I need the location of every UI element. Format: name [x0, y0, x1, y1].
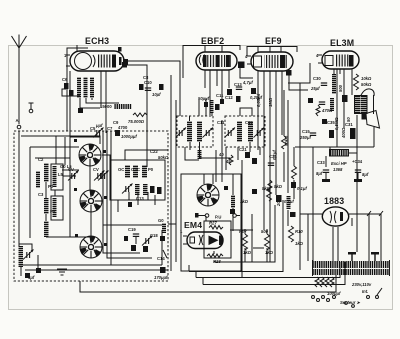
svg-text:50μμf: 50μμf [198, 96, 210, 101]
svg-text:C13: C13 [234, 82, 242, 87]
svg-text:400Ω: 400Ω [341, 127, 346, 139]
svg-text:Exci HP: Exci HP [331, 161, 347, 166]
svg-text:8μf: 8μf [362, 172, 369, 177]
svg-text:EM4: EM4 [184, 220, 202, 230]
svg-text:C16: C16 [245, 120, 253, 125]
svg-text:500: 500 [338, 84, 343, 92]
svg-text:10μf: 10μf [152, 92, 161, 97]
svg-text:C19: C19 [128, 227, 136, 232]
svg-text:10kΩ: 10kΩ [361, 76, 372, 81]
svg-text:C11: C11 [217, 120, 225, 125]
svg-text:250μf: 250μf [299, 135, 312, 140]
svg-text:3kΩ: 3kΩ [240, 199, 249, 204]
svg-text:C21: C21 [239, 147, 247, 152]
svg-text:75.000Ω: 75.000Ω [128, 119, 145, 124]
svg-text:OC: OC [118, 167, 124, 172]
svg-text:G0: G0 [158, 218, 164, 223]
svg-text:C7: C7 [107, 126, 113, 131]
svg-text:EBF2: EBF2 [201, 36, 224, 46]
svg-text:P0: P0 [50, 209, 56, 214]
svg-text:4,7μf: 4,7μf [242, 80, 253, 85]
svg-text:L5: L5 [58, 172, 64, 177]
svg-text:Secteur ➤: Secteur ➤ [340, 300, 361, 305]
svg-text:C2: C2 [38, 157, 44, 162]
svg-text:1000μμf: 1000μμf [121, 134, 137, 139]
svg-text:CV: CV [68, 167, 74, 172]
svg-text:EF9: EF9 [265, 36, 282, 46]
svg-text:C12: C12 [225, 95, 233, 100]
svg-text:1883: 1883 [324, 196, 344, 206]
svg-text:OSC: OSC [131, 167, 140, 172]
svg-text:5kΩ: 5kΩ [274, 184, 283, 189]
svg-text:C22: C22 [150, 149, 158, 154]
svg-text:C30: C30 [313, 76, 321, 81]
svg-text:R27: R27 [209, 221, 217, 226]
svg-text:25μf: 25μf [310, 86, 320, 91]
svg-text:1368: 1368 [333, 167, 343, 172]
svg-text:EL3M: EL3M [330, 38, 354, 48]
svg-text:ECH3: ECH3 [85, 36, 109, 46]
svg-text:1kΩ: 1kΩ [295, 241, 304, 246]
svg-text:1kΩ: 1kΩ [243, 250, 252, 255]
svg-text:C10: C10 [144, 80, 152, 85]
svg-text:C14: C14 [157, 256, 165, 261]
svg-text:170μμf: 170μμf [154, 275, 168, 280]
svg-text:C8: C8 [143, 75, 149, 80]
svg-text:0,1μf: 0,1μf [297, 186, 307, 191]
svg-text:C13: C13 [136, 196, 144, 201]
svg-text:1kΩ: 1kΩ [265, 250, 274, 255]
svg-text:4μf: 4μf [27, 275, 35, 280]
svg-text:230v,110v: 230v,110v [351, 282, 372, 287]
svg-text:A: A [16, 118, 19, 123]
svg-text:C18: C18 [150, 233, 158, 238]
svg-text:45: 45 [226, 159, 231, 164]
svg-text:20kΩ: 20kΩ [276, 195, 281, 207]
svg-text:C33: C33 [317, 160, 325, 165]
svg-text:CV: CV [93, 167, 99, 172]
svg-text:C15: C15 [302, 129, 310, 134]
svg-text:8μf: 8μf [316, 171, 323, 176]
svg-text:40: 40 [219, 152, 224, 157]
svg-text:500: 500 [261, 229, 269, 234]
svg-text:50kΩ: 50kΩ [158, 155, 169, 160]
svg-text:C3: C3 [38, 192, 44, 197]
svg-text:P0: P0 [48, 184, 54, 189]
svg-text:P.U: P.U [215, 215, 221, 220]
svg-text:Int.: Int. [362, 289, 368, 294]
svg-text:C11: C11 [216, 93, 224, 98]
svg-text:P0: P0 [148, 167, 154, 172]
svg-text:50: 50 [346, 117, 351, 122]
svg-text:50kΩ: 50kΩ [361, 82, 372, 87]
svg-text:R10: R10 [295, 229, 303, 234]
svg-text:0,1μf: 0,1μf [272, 150, 277, 160]
svg-text:μμf: μμf [95, 123, 103, 128]
svg-text:4700: 4700 [118, 125, 128, 130]
